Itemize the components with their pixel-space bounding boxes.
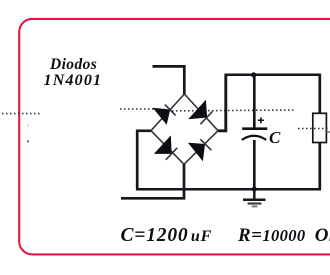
- label: R=10000 Ohm: [238, 225, 330, 247]
- wire: AC input 1 stub to bridge top: [153, 66, 185, 95]
- stray ink dot: [27, 141, 29, 143]
- junction dot on top rail at capacitor branch: [251, 72, 256, 77]
- label: capacitor C: [269, 128, 280, 148]
- wire: bridge right vertex up to top rail: [218, 76, 226, 131]
- wire: capacitor branch from top rail: [253, 75, 256, 128]
- wire: top positive rail: [224, 74, 320, 77]
- ground bar 1: [243, 198, 266, 201]
- ground stem: [253, 189, 256, 199]
- capacitor C1 top plate: [242, 127, 267, 130]
- diode D4 (bottom-right arm) triangle: [189, 143, 205, 160]
- wire: capacitor bottom to ground rail: [253, 140, 256, 189]
- label: Diodos: [50, 56, 97, 74]
- dotted construction line (middle segment): [120, 108, 160, 110]
- diode D3 cathode bar: [166, 148, 177, 160]
- ground bar 3: [252, 205, 258, 207]
- diode D2 cathode bar: [200, 111, 212, 124]
- resistor R1 body: [313, 113, 327, 142]
- capacitor C1 curved bottom plate: [242, 136, 266, 140]
- wire: bottom ground rail: [136, 188, 321, 191]
- wire: resistor bottom to rail: [318, 143, 321, 190]
- stray faint dot: [27, 125, 29, 127]
- label: 1N4001: [44, 72, 103, 90]
- small minus mark right of resistor: [327, 131, 330, 133]
- junction dot at capacitor/ground rail: [252, 187, 257, 192]
- wire: rail down to resistor top: [318, 74, 321, 114]
- diode D4 cathode bar: [200, 139, 211, 150]
- diode D2 (top-right arm) triangle: [189, 101, 206, 119]
- diode D1 cathode bar: [165, 105, 176, 116]
- wire: AC input 2 stub from bridge bottom: [121, 164, 184, 198]
- wire: bridge left vertex to bottom rail: [137, 131, 151, 188]
- ground bar 2: [248, 202, 262, 204]
- dotted construction line (left segment): [2, 113, 40, 115]
- diode bridge diamond outline: [151, 94, 218, 164]
- label: C=1200uF: [121, 225, 213, 247]
- diode D1 (left-top arm) triangle: [154, 108, 170, 123]
- dotted guide line (right segment): [298, 128, 330, 130]
- diode D3 (left-bottom arm) triangle: [155, 137, 171, 154]
- dotted construction line (middle segment 2): [160, 110, 294, 111]
- capacitor C1 plus sign: [258, 117, 264, 123]
